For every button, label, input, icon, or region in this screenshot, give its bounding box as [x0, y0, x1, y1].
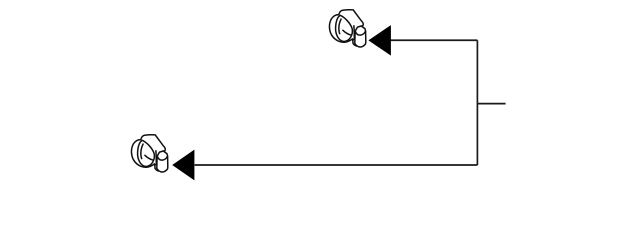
wire top horizontal	[391, 39, 478, 41]
arrow (bottom)	[172, 150, 194, 181]
wire bottom horizontal	[195, 164, 478, 166]
wire stub right	[477, 103, 505, 105]
wire right vertical	[476, 40, 478, 165]
hose clamp (top)	[329, 10, 365, 47]
arrow (top)	[368, 25, 391, 55]
hose clamp (bottom)	[131, 135, 167, 172]
